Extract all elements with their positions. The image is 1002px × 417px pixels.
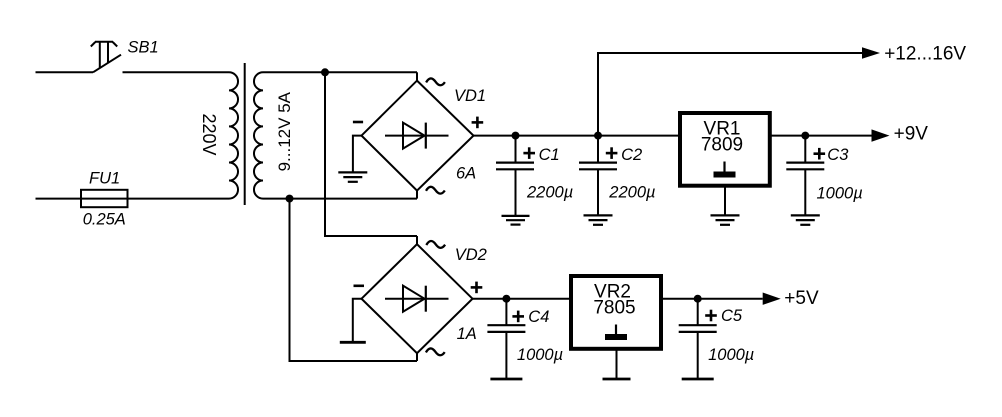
node junction dot bottom <box>286 195 294 203</box>
bridge rectifier VD2 diamond <box>362 244 473 353</box>
transformer T1 core <box>244 63 246 205</box>
rail from VD2 output to VR2 <box>473 298 570 300</box>
svg-text:+5V: +5V <box>784 288 819 309</box>
capacitor C1 <box>496 136 534 216</box>
svg-text:C4: C4 <box>528 308 549 326</box>
ground C5 <box>682 378 714 381</box>
svg-text:VD1: VD1 <box>454 87 486 105</box>
rail VR1 output to +9V <box>772 135 872 137</box>
node junction dot C2 <box>594 132 602 140</box>
wire from top junction down to bridge VD2 input <box>325 72 417 236</box>
node junction dot top <box>321 68 329 76</box>
svg-text:+9V: +9V <box>894 124 929 145</box>
regulator VR1 box <box>680 113 770 186</box>
tilde VD2 bottom <box>426 348 445 355</box>
svg-text:C3: C3 <box>827 146 849 164</box>
svg-text:C5: C5 <box>721 307 743 325</box>
arrowhead +12...16V <box>862 47 880 58</box>
svg-text:7809: 7809 <box>701 135 743 156</box>
node junction dot C3 <box>801 132 809 140</box>
svg-text:C2: C2 <box>621 146 642 164</box>
svg-text:VD2: VD2 <box>455 246 487 264</box>
tilde VD1 top <box>426 78 445 85</box>
wire bottom-left through fuse to transformer primary bottom <box>36 198 230 200</box>
plus sign C3 <box>814 148 826 160</box>
svg-text:6A: 6A <box>456 165 476 183</box>
svg-text:1000µ: 1000µ <box>517 346 563 364</box>
plus sign C4 <box>512 311 524 323</box>
ground C1 <box>502 216 530 225</box>
node junction dot C4 <box>502 295 510 303</box>
ground C2 <box>584 215 613 224</box>
svg-text:9...12V 5A: 9...12V 5A <box>275 91 294 171</box>
plus sign C2 <box>606 147 618 159</box>
transformer T1 primary winding <box>229 72 238 198</box>
svg-text:+12...16V: +12...16V <box>884 44 966 65</box>
capacitor C5 <box>679 299 717 379</box>
tilde VD1 bottom <box>426 187 445 194</box>
svg-text:7805: 7805 <box>593 298 635 319</box>
rail from VD1 output to VR1 <box>474 135 679 137</box>
wire secondary top to bridge VD1 <box>263 71 417 73</box>
arrowhead +5V <box>763 293 781 305</box>
VR1 ground pin wire <box>724 187 726 216</box>
svg-text:2200µ: 2200µ <box>608 184 655 202</box>
svg-text:1A: 1A <box>457 325 477 343</box>
node junction dot C1 <box>512 132 520 140</box>
regulator VR2 box <box>571 276 661 349</box>
switch SB1 <box>91 42 121 73</box>
wire secondary bottom to bridge VD1 <box>263 198 417 200</box>
transformer T1 secondary winding <box>254 72 263 198</box>
arrowhead +9V <box>872 129 890 141</box>
wire from bottom junction down to bridge VD2 input <box>290 199 418 361</box>
minus sign VD1 <box>353 121 363 124</box>
ground at VD1 minus <box>338 136 367 182</box>
svg-text:0.25A: 0.25A <box>83 211 126 229</box>
node junction dot C5 <box>694 295 702 303</box>
minus sign VD2 <box>354 285 365 288</box>
plus sign C5 <box>705 310 717 322</box>
ground VR2 <box>603 378 631 381</box>
svg-text:220V: 220V <box>199 113 219 155</box>
fuse FU1 <box>81 190 128 207</box>
capacitor C2 <box>579 136 617 215</box>
svg-text:SB1: SB1 <box>128 39 159 57</box>
diode inside VD2 <box>385 286 449 312</box>
svg-text:C1: C1 <box>539 146 560 164</box>
plus sign C1 <box>523 147 535 159</box>
ground at VD2 minus <box>340 299 366 343</box>
VR2 ground pin wire <box>616 350 618 379</box>
tilde VD2 top <box>426 241 445 248</box>
svg-text:FU1: FU1 <box>89 170 120 188</box>
svg-text:1000µ: 1000µ <box>817 185 863 203</box>
wire top-left from input to switch <box>36 71 94 73</box>
ground VR1 <box>711 215 740 224</box>
VR1 internal ground pin symbol <box>714 162 736 178</box>
capacitor C4 <box>487 299 525 379</box>
wire +12V riser and rail <box>598 53 863 136</box>
capacitor C3 <box>786 136 824 215</box>
bridge rectifier VD1 diamond <box>362 81 474 191</box>
ground C3 <box>791 215 820 224</box>
diode inside VD1 <box>385 123 449 149</box>
VR2 internal ground pin symbol <box>605 325 627 341</box>
plus sign VD2 <box>471 282 483 294</box>
wire from switch to transformer primary top <box>123 71 230 73</box>
ground C4 <box>490 378 522 381</box>
plus sign VD1 <box>472 117 484 129</box>
svg-text:1000µ: 1000µ <box>708 346 754 364</box>
rail VR2 output to +5V <box>663 298 763 300</box>
svg-text:2200µ: 2200µ <box>526 184 573 202</box>
